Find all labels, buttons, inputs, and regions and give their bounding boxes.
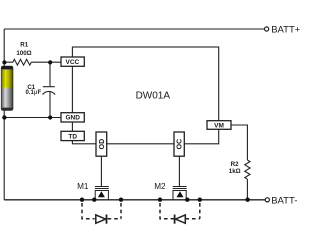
pin OC	[174, 132, 184, 156]
junction: M2 diode right	[198, 198, 202, 202]
svg-text:R1: R1	[20, 41, 28, 48]
svg-text:VM: VM	[214, 122, 224, 129]
svg-text:M1: M1	[77, 182, 89, 191]
junction: M2 diode left	[158, 198, 162, 202]
body diode D2 (dashed)	[160, 203, 200, 224]
junction: C1 top	[48, 60, 52, 64]
battery B1	[1, 66, 13, 111]
svg-text:BATT-: BATT-	[271, 195, 297, 206]
wire: GND rail	[4, 117, 61, 119]
svg-text:1kΩ: 1kΩ	[229, 168, 241, 175]
svg-text:DW01A: DW01A	[136, 90, 171, 101]
svg-text:VCC: VCC	[66, 59, 80, 66]
pin VCC	[61, 57, 84, 66]
junction: M1 source	[92, 198, 96, 202]
terminal BATT-	[265, 198, 269, 202]
junction: R2 / bottom rail	[245, 198, 249, 202]
svg-text:TD: TD	[68, 133, 77, 140]
capacitor C1	[43, 62, 55, 117]
resistor R2	[245, 160, 250, 179]
svg-text:OD: OD	[99, 139, 106, 150]
junction: C1 bottom	[48, 115, 52, 119]
junction: battery - / GND rail	[2, 115, 6, 119]
body diode D1 (dashed)	[82, 203, 121, 224]
transistor M2	[173, 187, 187, 200]
junction: M2 source	[185, 198, 189, 202]
wire: OC to M2 gate	[178, 156, 180, 186]
junction: M1 diode left	[80, 198, 84, 202]
pin OD	[96, 132, 107, 156]
pin GND	[61, 113, 84, 122]
junction: battery + / R1	[2, 60, 6, 64]
terminal BATT+	[265, 27, 269, 31]
transistor M1	[95, 187, 109, 200]
wire: OD to M1 gate	[100, 156, 102, 186]
pin VM	[207, 121, 231, 130]
wire: top rail to BATT+	[4, 28, 264, 30]
svg-text:OC: OC	[177, 139, 184, 150]
wire: bottom rail to BATT-	[4, 199, 265, 201]
IC U1 DW01A body	[72, 47, 218, 144]
svg-text:BATT+: BATT+	[271, 24, 301, 35]
wire: R1 to VCC pin	[31, 61, 61, 63]
wire: R2 to bottom rail	[246, 179, 248, 200]
svg-text:100Ω: 100Ω	[16, 50, 31, 57]
svg-text:0.1μF: 0.1μF	[25, 90, 41, 96]
pin TD	[61, 131, 84, 140]
svg-text:GND: GND	[65, 115, 80, 122]
junction: M1 diode right	[119, 198, 123, 202]
wire: left rail	[3, 29, 5, 200]
resistor R1	[4, 59, 31, 65]
svg-text:M2: M2	[154, 182, 166, 191]
wire: VM to R2	[231, 125, 247, 160]
